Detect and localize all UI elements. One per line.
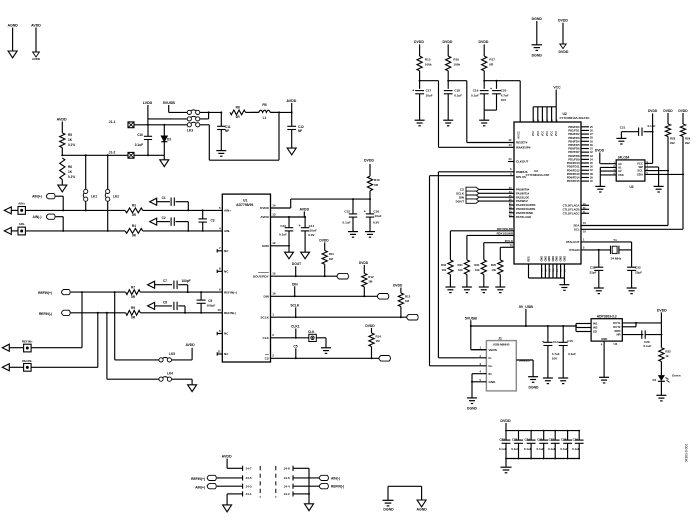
- svg-text:PD4/FD12: PD4/FD12: [567, 168, 580, 172]
- svg-text:5V_USB: 5V_USB: [519, 305, 533, 309]
- svg-text:VSS: VSS: [618, 173, 624, 177]
- svg-text:GND: GND: [563, 256, 566, 262]
- svg-text:AIN(-): AIN(-): [33, 215, 42, 219]
- svg-text:C1: C1: [162, 196, 166, 200]
- svg-text:C9: C9: [208, 299, 212, 303]
- svg-text:+: +: [490, 87, 492, 91]
- svg-text:AVDD: AVDD: [32, 57, 40, 61]
- svg-text:R31: R31: [458, 263, 464, 267]
- svg-text:100pF: 100pF: [181, 279, 190, 283]
- svg-text:0.1%: 0.1%: [68, 143, 75, 147]
- svg-text:PB3/FD3: PB3/FD3: [568, 136, 580, 140]
- svg-text:DGND: DGND: [383, 507, 394, 511]
- svg-text:DGND: DGND: [529, 386, 539, 390]
- svg-text:PB4/FD4: PB4/FD4: [568, 139, 580, 143]
- svg-text:GND: GND: [489, 380, 497, 384]
- svg-text:DOUT: DOUT: [292, 262, 301, 266]
- svg-text:RDY1/SLWR: RDY1/SLWR: [497, 232, 513, 236]
- svg-text:10k: 10k: [475, 268, 480, 272]
- svg-text:1k: 1k: [665, 354, 669, 358]
- svg-text:RESET#: RESET#: [516, 141, 528, 145]
- svg-text:J4-5: J4-5: [245, 476, 251, 480]
- svg-text:DVDD: DVDD: [479, 40, 489, 44]
- svg-text:LK4: LK4: [167, 372, 173, 376]
- svg-text:T0: T0: [510, 243, 514, 247]
- svg-text:J1-2: J1-2: [109, 150, 116, 154]
- svg-text:AIN+: AIN+: [18, 202, 25, 206]
- svg-text:R6: R6: [68, 165, 72, 169]
- svg-text:DVDD: DVDD: [364, 159, 374, 163]
- svg-text:2k2: 2k2: [670, 141, 675, 145]
- svg-text:C14: C14: [553, 340, 559, 344]
- svg-text:DVDD: DVDD: [414, 40, 424, 44]
- svg-text:44: 44: [508, 143, 512, 147]
- svg-text:D+: D+: [489, 364, 493, 368]
- svg-text:PD6/FD14: PD6/FD14: [567, 176, 580, 180]
- svg-text:J4-3: J4-3: [245, 484, 251, 488]
- svg-text:14: 14: [272, 203, 276, 207]
- svg-text:PA0/INT0#: PA0/INT0#: [516, 188, 530, 192]
- svg-text:NF: NF: [225, 129, 229, 133]
- svg-text:12: 12: [272, 241, 276, 245]
- svg-text:LVDD: LVDD: [143, 101, 153, 105]
- svg-text:PB5/FD5: PB5/FD5: [568, 143, 580, 147]
- svg-text:C18: C18: [454, 89, 460, 93]
- svg-text:R9: R9: [131, 306, 135, 310]
- svg-text:04363-0-001: 04363-0-001: [685, 444, 689, 463]
- svg-text:0.1uF: 0.1uF: [572, 447, 580, 451]
- svg-text:C25: C25: [537, 438, 543, 442]
- svg-text:REFIN(+): REFIN(+): [191, 477, 205, 481]
- svg-text:REFIN(+): REFIN(+): [38, 291, 52, 295]
- svg-text:GND: GND: [548, 256, 551, 262]
- svg-text:1M: 1M: [329, 257, 334, 261]
- svg-text:AIN+: AIN+: [224, 209, 231, 213]
- svg-text:VCC: VCC: [541, 131, 544, 136]
- svg-text:R5: R5: [68, 133, 72, 137]
- svg-text:C28: C28: [561, 438, 567, 442]
- svg-text:REFIN-: REFIN-: [22, 359, 32, 363]
- svg-text:RDY0/SLRD: RDY0/SLRD: [497, 227, 513, 231]
- svg-text:SD: SD: [593, 330, 597, 334]
- svg-text:AIN-: AIN-: [224, 229, 230, 233]
- svg-text:R30: R30: [441, 263, 447, 267]
- svg-text:CLK: CLK: [308, 330, 315, 334]
- svg-text:R10: R10: [374, 178, 380, 182]
- svg-text:C5: C5: [293, 344, 297, 348]
- svg-text:C29: C29: [573, 438, 579, 442]
- svg-text:5VUSB: 5VUSB: [465, 316, 477, 320]
- svg-text:VBUS: VBUS: [489, 348, 497, 352]
- svg-text:0.1uF: 0.1uF: [643, 344, 651, 348]
- svg-text:AVDD: AVDD: [286, 99, 296, 103]
- svg-text:22pF: 22pF: [589, 270, 596, 274]
- svg-text:ADP3303-3.3: ADP3303-3.3: [597, 315, 617, 319]
- svg-text:AGND: AGND: [416, 507, 427, 511]
- svg-text:PA3/WU2: PA3/WU2: [516, 199, 528, 203]
- svg-text:CTL2/FLAGC: CTL2/FLAGC: [563, 211, 580, 215]
- svg-text:D1: D1: [652, 378, 656, 382]
- svg-text:CTL1/FLAGB: CTL1/FLAGB: [563, 207, 580, 211]
- svg-text:R21: R21: [474, 263, 480, 267]
- svg-text:100k: 100k: [425, 63, 432, 67]
- svg-text:DGND: DGND: [532, 54, 543, 58]
- svg-text:DVDD: DVDD: [500, 419, 511, 423]
- svg-text:24LC64: 24LC64: [618, 156, 630, 160]
- svg-text:DVDD: DVDD: [558, 19, 568, 23]
- svg-text:R28: R28: [670, 137, 676, 141]
- svg-text:C21: C21: [620, 126, 626, 130]
- svg-text:1K: 1K: [68, 170, 73, 174]
- svg-text:SCL: SCL: [574, 227, 580, 231]
- svg-text:24: 24: [508, 157, 512, 161]
- svg-text:D-: D-: [489, 356, 492, 360]
- svg-text:10k: 10k: [491, 268, 496, 272]
- svg-text:J4-2: J4-2: [284, 492, 290, 496]
- svg-text:C13: C13: [280, 224, 286, 228]
- svg-text:J4-4: J4-4: [284, 484, 290, 488]
- svg-text:AIN(-): AIN(-): [331, 476, 340, 480]
- svg-text:2k2: 2k2: [685, 141, 690, 145]
- svg-text:+: +: [412, 89, 414, 93]
- svg-text:SHIELD: SHIELD: [519, 359, 530, 363]
- svg-text:AVDD: AVDD: [222, 454, 232, 458]
- svg-text:DPLUS: DPLUS: [516, 175, 526, 179]
- svg-text:10uF: 10uF: [375, 214, 382, 218]
- svg-text:SDA: SDA: [637, 173, 643, 177]
- svg-text:J4-6: J4-6: [284, 476, 290, 480]
- svg-text:0.1uF: 0.1uF: [560, 447, 568, 451]
- svg-text:VCC: VCC: [555, 131, 558, 136]
- svg-text:C3: C3: [211, 219, 215, 223]
- svg-text:J1: J1: [498, 336, 502, 340]
- svg-text:DIN: DIN: [264, 295, 269, 299]
- svg-text:CY7C68013A-CSP: CY7C68013A-CSP: [526, 173, 550, 177]
- svg-text:0.1uF: 0.1uF: [648, 124, 656, 128]
- svg-text:PB7/FD7: PB7/FD7: [568, 150, 580, 154]
- svg-text:10uF: 10uF: [310, 229, 317, 233]
- svg-text:AVDD: AVDD: [260, 215, 269, 219]
- svg-text:DVDD: DVDD: [678, 109, 688, 113]
- svg-text:CLKOUT: CLKOUT: [516, 160, 528, 164]
- svg-text:0.1uF: 0.1uF: [537, 447, 545, 451]
- svg-text:DVDD: DVDD: [393, 284, 403, 288]
- svg-text:100k: 100k: [453, 63, 460, 67]
- svg-text:PD5/FD13: PD5/FD13: [567, 172, 580, 176]
- svg-text:DOUT: DOUT: [456, 199, 465, 203]
- svg-text:0.1uF: 0.1uF: [135, 143, 143, 147]
- svg-text:WAKEUP#: WAKEUP#: [516, 146, 531, 150]
- svg-text:C15: C15: [344, 209, 350, 213]
- svg-text:AVDD: AVDD: [31, 24, 41, 28]
- svg-text:DVDD: DVDD: [663, 109, 673, 113]
- svg-text:R22: R22: [665, 349, 671, 353]
- svg-text:10k: 10k: [441, 268, 446, 272]
- svg-text:10: 10: [217, 308, 221, 312]
- svg-text:0.1uF: 0.1uF: [511, 447, 519, 451]
- svg-text:AVCC: AVCC: [517, 131, 521, 139]
- svg-text:AVDD: AVDD: [57, 118, 67, 122]
- svg-text:6.3V: 6.3V: [373, 221, 380, 225]
- svg-text:100pF: 100pF: [207, 304, 216, 308]
- svg-text:XTALIN: XTALIN: [569, 248, 579, 252]
- svg-text:J4-8: J4-8: [284, 467, 290, 471]
- svg-text:REFIN(-): REFIN(-): [224, 311, 236, 315]
- svg-text:NF: NF: [298, 129, 302, 133]
- svg-text:PB6/FD6: PB6/FD6: [568, 147, 580, 151]
- svg-text:C7: C7: [163, 279, 167, 283]
- svg-text:DGND: DGND: [532, 17, 543, 21]
- svg-text:VCC: VCC: [546, 131, 549, 136]
- svg-text:PD7/FD15: PD7/FD15: [567, 179, 580, 183]
- svg-text:C10: C10: [137, 133, 143, 137]
- svg-text:CLK1: CLK1: [291, 325, 300, 329]
- svg-text:DVDD: DVDD: [365, 324, 375, 328]
- svg-text:LK1: LK1: [91, 194, 97, 198]
- svg-text:0.1uF: 0.1uF: [548, 447, 556, 451]
- svg-text:C16: C16: [374, 209, 380, 213]
- svg-text:PB2/FD2: PB2/FD2: [568, 132, 580, 136]
- svg-text:DVDD: DVDD: [657, 308, 667, 312]
- svg-text:10k: 10k: [458, 268, 463, 272]
- svg-text:REFIN+: REFIN+: [22, 340, 33, 344]
- svg-text:C15: C15: [567, 339, 573, 343]
- svg-text:AVDD: AVDD: [185, 343, 195, 347]
- svg-text:U2: U2: [534, 169, 538, 173]
- svg-text:DVDD: DVDD: [260, 206, 269, 210]
- svg-text:0R: 0R: [131, 316, 136, 320]
- svg-text:0R: 0R: [132, 234, 137, 238]
- svg-text:PB1/FD1: PB1/FD1: [568, 129, 580, 133]
- svg-text:42: 42: [508, 138, 512, 142]
- svg-text:+: +: [298, 224, 300, 228]
- svg-text:PB0/FD0: PB0/FD0: [568, 125, 580, 129]
- svg-text:CTL0/FLAGA: CTL0/FLAGA: [563, 203, 580, 207]
- svg-text:13: 13: [272, 212, 276, 216]
- svg-text:AIN-: AIN-: [19, 222, 25, 226]
- svg-text:R11: R11: [329, 252, 335, 256]
- svg-text:0.1uF: 0.1uF: [568, 352, 576, 356]
- svg-text:+: +: [542, 340, 544, 344]
- svg-text:R17: R17: [489, 58, 495, 62]
- svg-text:C33: C33: [635, 265, 641, 269]
- svg-text:SCLK: SCLK: [290, 303, 300, 307]
- svg-text:J1-1: J1-1: [109, 120, 116, 124]
- svg-text:REFIN(-): REFIN(-): [331, 485, 344, 489]
- svg-text:4.7uF: 4.7uF: [501, 94, 509, 98]
- svg-text:Y1: Y1: [613, 238, 617, 242]
- svg-text:RES: RES: [527, 256, 530, 261]
- svg-text:C32: C32: [590, 265, 596, 269]
- svg-text:CY7C68013A-56LFXC: CY7C68013A-56LFXC: [560, 116, 591, 120]
- svg-text:DVDD: DVDD: [443, 40, 453, 44]
- svg-text:C22: C22: [499, 438, 505, 442]
- svg-text:D3: D3: [167, 138, 171, 142]
- svg-text:1K: 1K: [68, 138, 73, 142]
- svg-text:L1: L1: [263, 116, 267, 120]
- svg-text:PD2/FD10: PD2/FD10: [567, 161, 580, 165]
- svg-text:0R: 0R: [131, 295, 136, 299]
- svg-text:NR: NR: [616, 333, 620, 337]
- svg-text:DMINUS: DMINUS: [516, 170, 528, 174]
- svg-text:J4-1: J4-1: [245, 492, 251, 496]
- svg-text:J4-7: J4-7: [245, 467, 251, 471]
- svg-text:GND: GND: [552, 256, 555, 262]
- svg-text:REFIN(-): REFIN(-): [39, 312, 52, 316]
- svg-text:DVDD: DVDD: [648, 109, 658, 113]
- svg-text:PD0/FD8: PD0/FD8: [568, 154, 580, 158]
- svg-text:0.1uF: 0.1uF: [499, 447, 507, 451]
- svg-text:PA7/FLAGD: PA7/FLAGD: [516, 215, 531, 219]
- svg-text:0.1uF: 0.1uF: [454, 94, 462, 98]
- svg-text:FB: FB: [262, 103, 267, 107]
- svg-text:DVDD: DVDD: [319, 238, 329, 242]
- svg-text:DGND: DGND: [467, 407, 477, 411]
- svg-text:C17: C17: [426, 89, 432, 93]
- svg-text:R13: R13: [405, 294, 411, 298]
- svg-text:1M: 1M: [405, 299, 410, 303]
- svg-text:R16: R16: [453, 58, 459, 62]
- svg-text:PA4/FIFOADR0: PA4/FIFOADR0: [516, 203, 536, 207]
- svg-text:C14: C14: [309, 224, 315, 228]
- svg-text:DVDD: DVDD: [559, 50, 569, 54]
- svg-text:0R: 0R: [132, 213, 137, 217]
- svg-text:24 MHz: 24 MHz: [611, 257, 622, 261]
- svg-text:15: 15: [272, 272, 276, 276]
- svg-text:R3: R3: [132, 204, 136, 208]
- svg-text:DVDD: DVDD: [595, 149, 605, 153]
- svg-text:1M: 1M: [368, 280, 373, 284]
- svg-text:C8: C8: [163, 300, 167, 304]
- svg-text:VCC: VCC: [537, 131, 540, 136]
- svg-text:DIN: DIN: [292, 282, 298, 286]
- svg-text:0.1uF: 0.1uF: [343, 221, 351, 225]
- svg-text:GND: GND: [601, 337, 607, 341]
- svg-text:AVDD: AVDD: [299, 207, 309, 211]
- svg-text:XTALOUT: XTALOUT: [566, 240, 580, 244]
- svg-text:4.7uF: 4.7uF: [552, 352, 560, 356]
- svg-text:PA1/INT1#: PA1/INT1#: [516, 191, 530, 195]
- svg-text:PA6/PKTEND: PA6/PKTEND: [516, 211, 533, 215]
- svg-text:0.1uF: 0.1uF: [471, 94, 479, 98]
- svg-text:DOUT/RDY: DOUT/RDY: [253, 274, 269, 278]
- svg-text:22pF: 22pF: [635, 270, 642, 274]
- svg-text:LK2: LK2: [113, 194, 119, 198]
- svg-text:11: 11: [218, 349, 221, 353]
- svg-text:6.3V: 6.3V: [308, 233, 315, 237]
- svg-text:R15: R15: [425, 58, 431, 62]
- svg-text:IFCLK: IFCLK: [505, 239, 513, 243]
- svg-text:DVDD: DVDD: [359, 261, 369, 265]
- svg-text:VCC: VCC: [553, 86, 561, 90]
- svg-text:C23: C23: [512, 438, 518, 442]
- svg-text:LK3: LK3: [187, 129, 193, 133]
- svg-text:GND: GND: [560, 256, 563, 262]
- svg-text:R7: R7: [131, 285, 135, 289]
- svg-text:10V: 10V: [552, 357, 558, 361]
- svg-text:C2: C2: [162, 216, 166, 220]
- svg-text:R20: R20: [491, 263, 497, 267]
- svg-text:LK5: LK5: [169, 352, 175, 356]
- svg-text:U4: U4: [613, 342, 617, 346]
- svg-text:R12: R12: [368, 275, 374, 279]
- svg-text:GND: GND: [262, 244, 270, 248]
- svg-text:10uF: 10uF: [426, 94, 433, 98]
- svg-text:R14: R14: [376, 334, 382, 338]
- svg-text:USB-MINI-B: USB-MINI-B: [493, 343, 509, 347]
- svg-text:C20: C20: [501, 89, 507, 93]
- svg-text:U3: U3: [629, 185, 633, 189]
- svg-text:R4: R4: [132, 224, 136, 228]
- svg-text:R8: R8: [236, 106, 240, 110]
- svg-text:U1: U1: [243, 199, 248, 203]
- svg-text:R29: R29: [685, 137, 691, 141]
- svg-text:0.1uF: 0.1uF: [279, 232, 287, 236]
- svg-text:GND: GND: [556, 256, 559, 262]
- svg-text:PA2/SLOE: PA2/SLOE: [516, 195, 529, 199]
- svg-text:REFIN(+): REFIN(+): [224, 290, 237, 294]
- svg-text:AGND: AGND: [7, 24, 18, 28]
- svg-text:PA5/FIFOADR1: PA5/FIFOADR1: [516, 207, 536, 211]
- svg-text:AIN(+): AIN(+): [32, 195, 42, 199]
- svg-text:0R: 0R: [236, 115, 241, 119]
- svg-text:16: 16: [272, 292, 276, 296]
- svg-text:AD7798/99: AD7798/99: [236, 203, 253, 207]
- svg-text:GND: GND: [541, 256, 544, 262]
- svg-text:0.1%: 0.1%: [68, 175, 75, 179]
- svg-text:CS: CS: [265, 357, 269, 361]
- svg-text:GND: GND: [544, 256, 547, 262]
- svg-text:1M: 1M: [376, 339, 381, 343]
- svg-text:PD3/FD11: PD3/FD11: [567, 165, 580, 169]
- svg-text:VCC: VCC: [551, 131, 554, 136]
- svg-text:VCC: VCC: [532, 131, 535, 136]
- svg-text:0.1uF: 0.1uF: [524, 447, 532, 451]
- svg-text:C24: C24: [525, 438, 531, 442]
- svg-text:C27: C27: [549, 438, 555, 442]
- svg-text:CLK: CLK: [263, 336, 270, 340]
- svg-text:Green: Green: [672, 373, 681, 377]
- svg-text:AIN(+): AIN(+): [195, 485, 205, 489]
- svg-text:+: +: [364, 209, 366, 213]
- svg-text:5VUSB: 5VUSB: [163, 101, 175, 105]
- svg-text:PD1/FD9: PD1/FD9: [568, 157, 580, 161]
- svg-text:C19: C19: [473, 89, 479, 93]
- svg-text:SCLK: SCLK: [261, 315, 270, 319]
